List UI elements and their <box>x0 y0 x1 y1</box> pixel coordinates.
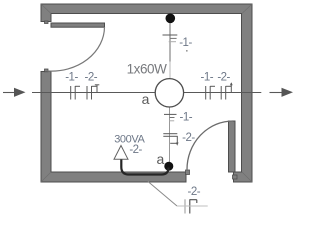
svg-text:-1-: -1- <box>65 71 78 83</box>
svg-text:a: a <box>157 151 165 167</box>
wall left-lower jamb tab <box>45 69 49 72</box>
svg-text:-2-: -2- <box>129 144 142 156</box>
conductor ticks group G (-2- below lamp) <box>163 134 177 144</box>
wire stub outside horizontal <box>177 205 208 207</box>
conductor ticks group A (-1- left wire) <box>71 86 80 100</box>
svg-text:-1-: -1- <box>201 71 214 83</box>
svg-text:-2-: -2- <box>182 132 195 144</box>
wire vertical top (dot to lamp) <box>169 19 171 62</box>
wall top+right assembly <box>41 4 252 182</box>
junction dot top <box>166 13 176 23</box>
svg-text:a: a <box>142 91 150 107</box>
conductor ticks group E (-1- top vertical wire) <box>163 35 178 42</box>
wire main horizontal left <box>3 92 15 94</box>
door swing arc top-left <box>48 27 105 71</box>
svg-text:-1-: -1- <box>179 37 192 49</box>
transformer T1 triangle 300VA <box>114 146 128 160</box>
door leaf bottom-right <box>229 121 236 172</box>
corner bevel bottom-left <box>41 172 51 182</box>
wire vertical bottom (lamp to switch dot) <box>169 107 171 164</box>
svg-text:-1-: -1- <box>180 112 193 124</box>
lamp U1 circle 1x60W <box>155 79 183 107</box>
conductor ticks group D (-2- right wire, up arrow) <box>221 83 231 100</box>
svg-text:-2-: -2- <box>85 71 98 83</box>
corner bevel top-right <box>242 4 252 14</box>
door swing arc bottom-right <box>187 121 233 170</box>
arrow right shaft <box>270 92 283 94</box>
wire vertical top lower part <box>169 62 171 79</box>
conductor ticks group F (-1- below lamp) <box>164 114 177 120</box>
conductor ticks group C (-1- right wire) <box>206 86 215 100</box>
svg-text:-2-: -2- <box>188 186 201 198</box>
wire main horizontal right <box>184 92 262 94</box>
wall bottom-right jamb tab <box>233 175 238 179</box>
wall left+bottom assembly <box>41 72 186 183</box>
corner bevel top-left <box>41 4 51 14</box>
arrow right head <box>282 88 294 97</box>
conductor ticks group B (-2- left wire) <box>87 85 99 100</box>
arrowhead of group D <box>230 82 233 85</box>
artifact dot <box>186 50 188 52</box>
corner bevel bottom-right <box>242 172 252 182</box>
conductor ticks group H (-2- bottom outside) <box>185 199 197 213</box>
arrow left <box>14 88 26 97</box>
svg-text:1x60W: 1x60W <box>127 61 167 76</box>
switch dot bottom <box>164 162 173 171</box>
wire diagonal to outside <box>148 182 177 207</box>
wall top-left jamb tab <box>45 21 49 24</box>
wire main horizontal left <box>32 92 155 94</box>
switch wire thick (triangle to switch dot) <box>121 160 168 175</box>
door leaf top-left <box>51 23 105 27</box>
wall bottom jamb tab <box>186 170 190 175</box>
arrowhead of group G <box>176 143 179 146</box>
svg-text:-2-: -2- <box>217 71 230 83</box>
